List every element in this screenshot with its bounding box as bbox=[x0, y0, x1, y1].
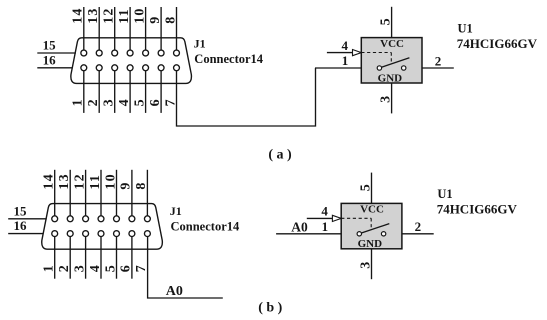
svg-text:GND: GND bbox=[358, 238, 383, 250]
svg-text:8: 8 bbox=[163, 17, 178, 24]
J1 pin 2 wire (a) bbox=[98, 71, 100, 113]
svg-text:12: 12 bbox=[72, 173, 87, 189]
J1 pin 14 wire (a) bbox=[83, 7, 85, 50]
J1 pin 5 contact circle (b) bbox=[114, 231, 120, 237]
J1 pin 6 contact circle (b) bbox=[129, 231, 135, 237]
J1 pin 9 contact circle (b) bbox=[129, 216, 135, 222]
J1 pin 3 wire (b) bbox=[85, 237, 87, 279]
svg-text:2: 2 bbox=[435, 53, 442, 68]
svg-text:12: 12 bbox=[102, 7, 117, 23]
J1 pin 7 contact circle (b) bbox=[144, 231, 150, 237]
svg-text:4: 4 bbox=[88, 265, 103, 272]
U1 pin 5 wire (b) bbox=[371, 173, 373, 204]
svg-text:16: 16 bbox=[43, 52, 57, 67]
J1 pin 13 wire (a) bbox=[98, 7, 100, 50]
J1 pin 11 contact circle (a) bbox=[127, 50, 133, 56]
wire J1 pin7 to U1 pin1 (a) bbox=[177, 68, 316, 126]
svg-text:Connector14: Connector14 bbox=[194, 52, 263, 66]
svg-text:6: 6 bbox=[119, 265, 134, 272]
svg-text:1: 1 bbox=[71, 99, 86, 106]
wire J1 pin7 to net A0 (b) bbox=[148, 237, 223, 298]
J1 pin 4 contact circle (a) bbox=[127, 65, 133, 71]
U1 pin 4 wire (a) bbox=[327, 52, 353, 54]
J1 pin 10 wire (a) bbox=[145, 7, 147, 50]
J1 pin 3 wire (a) bbox=[114, 71, 116, 113]
svg-text:4: 4 bbox=[341, 38, 348, 53]
svg-text:1: 1 bbox=[342, 53, 349, 68]
svg-text:3: 3 bbox=[378, 96, 393, 103]
svg-text:1: 1 bbox=[322, 219, 329, 234]
J1 pin 8 wire (a) bbox=[176, 7, 178, 50]
J1 pin 14 contact circle (b) bbox=[52, 216, 58, 222]
J1 pin 8 contact circle (b) bbox=[144, 216, 150, 222]
J1 pin 2 contact circle (b) bbox=[67, 231, 73, 237]
svg-text:3: 3 bbox=[358, 262, 373, 269]
U1 pin 1 wire (b) bbox=[276, 233, 341, 235]
svg-text:5: 5 bbox=[103, 265, 118, 272]
svg-text:74HCIG66GV: 74HCIG66GV bbox=[457, 36, 538, 51]
J1 pin 5 contact circle (a) bbox=[143, 65, 149, 71]
svg-text:15: 15 bbox=[43, 38, 57, 53]
op-amp U1 switch body (b) bbox=[341, 203, 402, 248]
U1 pin 2 wire (a) bbox=[422, 67, 454, 69]
svg-text:9: 9 bbox=[148, 17, 163, 24]
svg-text:3: 3 bbox=[72, 265, 87, 272]
svg-text:16: 16 bbox=[14, 218, 28, 233]
svg-text:J1: J1 bbox=[170, 204, 182, 218]
svg-text:U1: U1 bbox=[437, 187, 452, 201]
svg-text:14: 14 bbox=[71, 7, 86, 23]
J1 pin 2 contact circle (a) bbox=[96, 65, 102, 71]
J1 pin 6 contact circle (a) bbox=[158, 65, 164, 71]
U1 pin 4 control buffer triangle (a) bbox=[353, 50, 362, 56]
svg-text:2: 2 bbox=[415, 219, 422, 234]
connector J1 body (b) bbox=[42, 204, 163, 250]
J1 pin 1 contact circle (b) bbox=[52, 231, 58, 237]
J1 pin 1 contact circle (a) bbox=[81, 65, 87, 71]
J1 pin 10 contact circle (a) bbox=[143, 50, 149, 56]
svg-text:11: 11 bbox=[88, 174, 103, 190]
U1 pin 3 wire (b) bbox=[371, 249, 373, 279]
J1 pin 4 wire (b) bbox=[100, 237, 102, 279]
J1 pin 11 wire (b) bbox=[100, 170, 102, 216]
J1 pin 3 contact circle (a) bbox=[112, 65, 118, 71]
J1 pin 8 wire (b) bbox=[146, 170, 148, 216]
svg-text:( a ): ( a ) bbox=[268, 147, 292, 162]
J1 pin 11 contact circle (b) bbox=[98, 216, 104, 222]
U1 pin 4 control buffer triangle (b) bbox=[332, 215, 341, 221]
svg-text:11: 11 bbox=[117, 8, 132, 24]
J1 pin 9 contact circle (a) bbox=[158, 50, 164, 56]
U1 pin 5 wire (a) bbox=[391, 7, 393, 38]
J1 pin 5 wire (a) bbox=[145, 71, 147, 113]
svg-text:15: 15 bbox=[14, 203, 28, 218]
J1 pin 3 contact circle (b) bbox=[83, 231, 89, 237]
svg-text:A0: A0 bbox=[166, 284, 183, 299]
U1 pin 2 wire (b) bbox=[402, 233, 434, 235]
U1 switch blade (a) bbox=[382, 58, 410, 67]
svg-text:8: 8 bbox=[134, 183, 149, 190]
svg-text:74HCIG66GV: 74HCIG66GV bbox=[437, 202, 518, 217]
svg-text:1: 1 bbox=[42, 265, 57, 272]
svg-text:4: 4 bbox=[321, 204, 328, 219]
J1 pin 10 wire (b) bbox=[116, 170, 118, 216]
U1 pin 1 wire (a) bbox=[315, 67, 361, 69]
J1 pin 8 contact circle (a) bbox=[174, 50, 180, 56]
J1 pin 4 wire (a) bbox=[129, 71, 131, 113]
J1 pin 12 contact circle (b) bbox=[83, 216, 89, 222]
J1 pin 14 wire (b) bbox=[54, 170, 56, 216]
J1 pin 14 contact circle (a) bbox=[81, 50, 87, 56]
U1 control dashed line (b) bbox=[341, 217, 371, 219]
J1 pin 2 wire (b) bbox=[69, 237, 71, 279]
svg-text:6: 6 bbox=[148, 99, 163, 106]
svg-text:J1: J1 bbox=[194, 36, 206, 50]
U1 switch contact left (b) bbox=[357, 232, 361, 236]
U1 switch blade (b) bbox=[362, 224, 390, 233]
svg-text:4: 4 bbox=[117, 99, 132, 106]
svg-text:( b ): ( b ) bbox=[258, 300, 282, 315]
svg-text:A0: A0 bbox=[291, 220, 308, 235]
J1 pin 16 wire (b) bbox=[8, 233, 43, 235]
U1 switch contact left (a) bbox=[377, 66, 381, 70]
J1 pin 13 wire (b) bbox=[69, 170, 71, 216]
svg-text:5: 5 bbox=[378, 18, 393, 25]
J1 pin 10 contact circle (b) bbox=[114, 216, 120, 222]
svg-text:9: 9 bbox=[119, 183, 134, 190]
svg-text:13: 13 bbox=[57, 173, 72, 189]
J1 pin 15 wire (b) bbox=[8, 218, 47, 220]
svg-text:3: 3 bbox=[102, 99, 117, 106]
svg-text:GND: GND bbox=[378, 72, 403, 84]
svg-text:Connector14: Connector14 bbox=[171, 220, 240, 234]
U1 pin 3 wire (a) bbox=[391, 83, 393, 113]
svg-text:5: 5 bbox=[132, 99, 147, 106]
J1 pin 7 contact circle (a) bbox=[174, 65, 180, 71]
J1 pin 11 wire (a) bbox=[129, 7, 131, 50]
U1 pin 4 wire (b) bbox=[307, 217, 333, 219]
J1 pin 16 wire (a) bbox=[37, 67, 72, 69]
J1 pin 13 contact circle (a) bbox=[96, 50, 102, 56]
svg-text:VCC: VCC bbox=[360, 204, 384, 216]
U1 switch contact right (a) bbox=[402, 66, 406, 70]
J1 pin 6 wire (b) bbox=[131, 237, 133, 279]
svg-text:VCC: VCC bbox=[380, 38, 404, 50]
svg-text:5: 5 bbox=[358, 184, 373, 191]
svg-text:U1: U1 bbox=[458, 21, 473, 35]
J1 pin 12 wire (a) bbox=[114, 7, 116, 50]
svg-text:2: 2 bbox=[57, 265, 72, 272]
U1 switch contact right (b) bbox=[381, 232, 385, 236]
J1 pin 6 wire (a) bbox=[160, 71, 162, 113]
J1 pin 5 wire (b) bbox=[116, 237, 118, 279]
J1 pin 13 contact circle (b) bbox=[67, 216, 73, 222]
J1 pin 12 wire (b) bbox=[85, 170, 87, 216]
svg-text:10: 10 bbox=[132, 7, 147, 23]
J1 pin 1 wire (b) bbox=[54, 237, 56, 279]
J1 pin 12 contact circle (a) bbox=[112, 50, 118, 56]
U1 control dashed line (a) bbox=[361, 52, 391, 54]
svg-text:13: 13 bbox=[86, 7, 101, 23]
J1 pin 1 wire (a) bbox=[83, 71, 85, 113]
svg-text:2: 2 bbox=[86, 99, 101, 106]
svg-text:10: 10 bbox=[103, 173, 118, 189]
J1 pin 9 wire (a) bbox=[160, 7, 162, 50]
J1 pin 15 wire (a) bbox=[37, 52, 76, 54]
J1 pin 4 contact circle (b) bbox=[98, 231, 104, 237]
svg-text:14: 14 bbox=[42, 173, 57, 189]
op-amp U1 switch body (a) bbox=[361, 38, 422, 83]
J1 pin 9 wire (b) bbox=[131, 170, 133, 216]
connector J1 body (a) bbox=[71, 38, 192, 84]
